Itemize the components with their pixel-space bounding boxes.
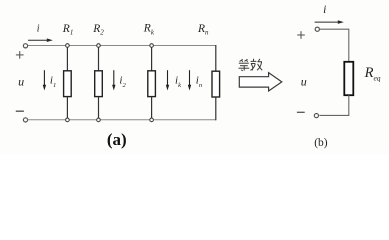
node − terminal (b) <box>314 114 318 118</box>
resistor Rn <box>212 71 220 97</box>
node junction bottom 2 <box>97 118 101 122</box>
wire: top bus of circuit (a) <box>28 45 216 47</box>
wire branch 1 lower <box>66 97 68 118</box>
node junction top 2 <box>97 44 101 48</box>
resistor R1 <box>64 71 72 97</box>
node junction bottom 3 <box>150 118 154 122</box>
current arrow i2 <box>112 70 115 90</box>
svg-text:u: u <box>18 75 24 89</box>
svg-text:i: i <box>37 24 40 35</box>
resistor Rk <box>148 71 156 97</box>
wire branch 1 upper <box>66 47 68 70</box>
equivalence block arrow <box>239 73 281 91</box>
label − (b) <box>297 111 305 113</box>
wire branch 4 lower <box>215 97 217 120</box>
wire: top of circuit (b) <box>319 29 348 62</box>
svg-text:u: u <box>301 74 307 88</box>
current arrow ik <box>166 70 169 90</box>
wire branch 2 lower <box>98 97 100 118</box>
current arrow i1 <box>43 70 46 90</box>
svg-text:(a): (a) <box>107 130 127 149</box>
current arrow in <box>188 70 191 90</box>
wire: bottom bus of circuit (a) <box>28 119 216 121</box>
svg-text:(b): (b) <box>314 137 328 149</box>
node + terminal (b) <box>315 27 319 31</box>
label − (a) <box>16 110 24 112</box>
node + terminal (a) <box>23 44 27 48</box>
node − terminal (a) <box>23 118 27 122</box>
current arrow i (b) <box>315 20 344 24</box>
label 等效 (equivalent) drawn strokes <box>239 59 250 71</box>
current arrow i (a) <box>28 38 53 42</box>
wire branch 2 upper <box>98 47 100 70</box>
label + (a) <box>16 51 24 59</box>
wire: bottom of circuit (b) <box>319 95 348 115</box>
wire branch 3 lower <box>151 97 153 118</box>
node junction top 3 <box>150 44 154 48</box>
wire branch 3 upper <box>151 47 153 70</box>
resistor R2 <box>95 71 103 97</box>
label + (b) <box>297 31 305 39</box>
node junction bottom 1 <box>66 118 70 122</box>
resistor Req <box>344 62 353 95</box>
wire branch 4 upper <box>215 45 217 71</box>
node junction top 1 <box>66 44 70 48</box>
svg-text:i: i <box>323 4 326 16</box>
